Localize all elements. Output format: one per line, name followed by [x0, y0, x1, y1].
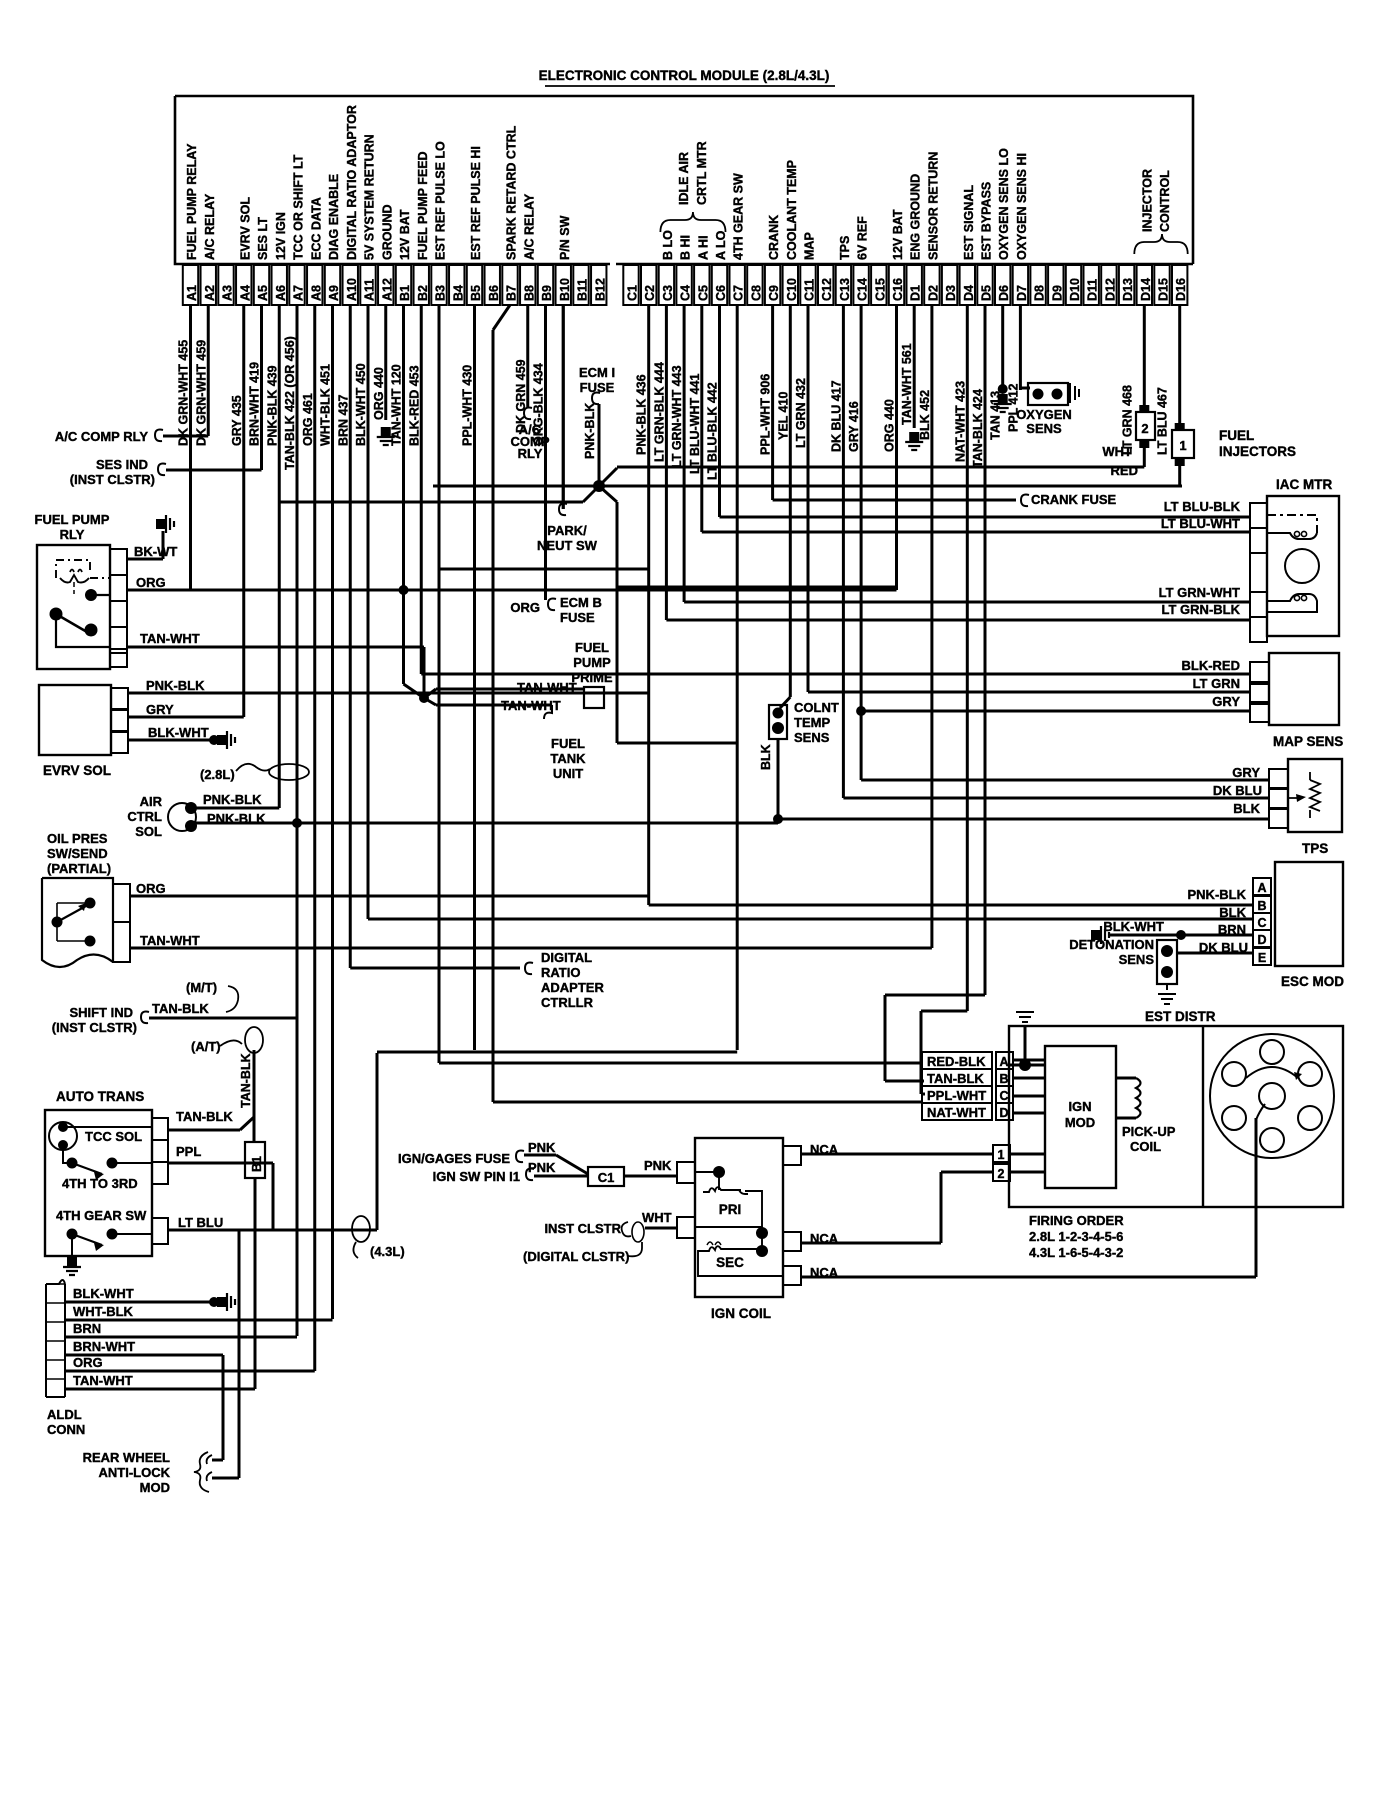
pin C3	[659, 265, 674, 305]
wire from pin A5	[260, 305, 263, 470]
svg-text:MAP SENS: MAP SENS	[1273, 734, 1343, 749]
svg-text:ORG 440: ORG 440	[372, 367, 386, 420]
wire from pin C7	[736, 305, 739, 1050]
svg-text:PNK-BLK: PNK-BLK	[583, 403, 597, 459]
svg-text:OIL PRES: OIL PRES	[47, 831, 108, 846]
DIGITAL RATIO ADAPTER CTRLLR	[350, 967, 520, 970]
svg-text:RED-BLK: RED-BLK	[927, 1054, 986, 1069]
svg-text:A: A	[1257, 881, 1266, 895]
TAN-BLK vertical to B1 conn	[253, 1050, 256, 1142]
svg-text:C11: C11	[803, 279, 817, 301]
svg-text:TEMP: TEMP	[794, 715, 830, 730]
left bus y502	[279, 501, 583, 504]
svg-text:ENG GROUND: ENG GROUND	[909, 174, 923, 260]
wire from pin C4	[683, 305, 686, 602]
svg-text:EST BYPASS: EST BYPASS	[980, 182, 994, 260]
svg-text:BLK-WHT 450: BLK-WHT 450	[354, 363, 368, 446]
svg-text:D: D	[1257, 933, 1266, 947]
svg-text:AIR: AIR	[140, 794, 163, 809]
svg-text:GRY 435: GRY 435	[230, 395, 244, 446]
PARK/NEUT SW	[562, 305, 565, 509]
svg-text:D9: D9	[1050, 285, 1064, 301]
svg-text:A7: A7	[292, 285, 306, 301]
pin C11	[800, 265, 815, 305]
svg-text:TAN-BLK: TAN-BLK	[239, 1053, 253, 1108]
svg-text:12V IGN: 12V IGN	[274, 212, 288, 260]
svg-text:LT GRN-BLK: LT GRN-BLK	[1162, 602, 1241, 617]
svg-text:NAT-WHT 423: NAT-WHT 423	[953, 381, 967, 462]
svg-text:D13: D13	[1121, 278, 1135, 301]
svg-text:GROUND: GROUND	[380, 204, 394, 260]
svg-text:CONN: CONN	[47, 1422, 85, 1437]
pin C1	[623, 265, 638, 305]
WHT bus to injector	[617, 466, 1144, 469]
svg-text:SEC: SEC	[716, 1255, 744, 1270]
svg-text:TAN-WHT: TAN-WHT	[73, 1373, 133, 1388]
pin D3	[942, 265, 957, 305]
ALDL CONN	[46, 1280, 65, 1397]
svg-text:TCC OR SHIFT LT: TCC OR SHIFT LT	[292, 154, 306, 260]
svg-text:TAN-BLK 422 (OR 456): TAN-BLK 422 (OR 456)	[283, 336, 297, 470]
svg-text:A/C RELAY: A/C RELAY	[203, 193, 217, 260]
svg-text:A3: A3	[221, 285, 235, 301]
svg-text:(PARTIAL): (PARTIAL)	[47, 861, 111, 876]
svg-text:GRY: GRY	[1212, 694, 1240, 709]
svg-text:DK GRN-WHT 455: DK GRN-WHT 455	[177, 340, 191, 446]
svg-text:C16: C16	[891, 278, 905, 301]
pin C16	[889, 265, 904, 305]
pin D13	[1119, 265, 1134, 305]
pin B10	[556, 265, 571, 305]
wire from pin C11	[807, 305, 810, 692]
pin C15	[871, 265, 886, 305]
svg-text:E: E	[1258, 951, 1266, 965]
svg-text:C2: C2	[643, 285, 657, 301]
svg-text:PICK-UP: PICK-UP	[1122, 1124, 1176, 1139]
svg-text:C9: C9	[767, 285, 781, 301]
svg-text:IGN/GAGES FUSE: IGN/GAGES FUSE	[398, 1151, 510, 1166]
svg-text:CRANK FUSE: CRANK FUSE	[1031, 492, 1117, 507]
pin B3	[431, 265, 446, 305]
svg-text:B1: B1	[398, 285, 412, 301]
pin C8	[747, 265, 762, 305]
ECM I feed from C16	[617, 586, 897, 589]
svg-text:FUEL: FUEL	[1219, 428, 1254, 443]
svg-text:BLK 452: BLK 452	[918, 390, 932, 440]
wire from pin A8	[313, 305, 316, 1371]
svg-text:ADAPTER: ADAPTER	[541, 980, 604, 995]
IGN COIL	[695, 1138, 783, 1297]
svg-text:(A/T): (A/T)	[191, 1039, 221, 1054]
pin C6	[712, 265, 727, 305]
pin D4	[960, 265, 975, 305]
svg-text:A5: A5	[256, 285, 270, 301]
svg-text:C6: C6	[714, 285, 728, 301]
svg-text:PRI: PRI	[719, 1202, 742, 1217]
svg-text:IGN SW PIN I1: IGN SW PIN I1	[433, 1169, 520, 1184]
svg-text:RED: RED	[1111, 463, 1138, 478]
tcc wire	[63, 1126, 152, 1128]
svg-text:DK BLU 417: DK BLU 417	[829, 380, 843, 452]
pins 1 2	[993, 1145, 1010, 1162]
svg-text:D8: D8	[1033, 285, 1047, 301]
svg-text:EST REF PULSE LO: EST REF PULSE LO	[434, 141, 448, 260]
svg-text:RATIO: RATIO	[541, 965, 580, 980]
svg-text:FUEL PUMP RELAY: FUEL PUMP RELAY	[185, 143, 199, 260]
svg-text:OXYGEN SENS HI: OXYGEN SENS HI	[1015, 153, 1029, 260]
svg-text:ECC DATA: ECC DATA	[309, 197, 323, 260]
aldl blk-wht ground	[209, 1297, 219, 1307]
svg-text:A9: A9	[327, 285, 341, 301]
svg-text:2: 2	[1141, 421, 1148, 436]
svg-text:DK GRN-WHT 459: DK GRN-WHT 459	[194, 340, 208, 446]
BLK bus (air sol to TPS)	[297, 822, 778, 825]
svg-text:2: 2	[998, 1167, 1005, 1181]
svg-text:D5: D5	[980, 285, 994, 301]
svg-text:TANK: TANK	[550, 751, 586, 766]
link y743	[617, 742, 737, 745]
svg-text:PNK-BLK 436: PNK-BLK 436	[635, 374, 649, 455]
svg-text:P/N SW: P/N SW	[558, 215, 572, 260]
svg-text:B6: B6	[487, 285, 501, 301]
svg-text:A LO: A LO	[714, 230, 728, 260]
svg-text:FUEL: FUEL	[575, 640, 609, 655]
svg-text:PNK-BLK: PNK-BLK	[203, 792, 262, 807]
svg-text:C12: C12	[820, 278, 834, 301]
svg-text:COIL: COIL	[1130, 1139, 1161, 1154]
x619 long vertical	[616, 502, 619, 743]
pin C2	[641, 265, 656, 305]
svg-text:PNK: PNK	[528, 1140, 556, 1155]
svg-text:(M/T): (M/T)	[186, 980, 217, 995]
svg-text:BLK-WHT: BLK-WHT	[73, 1286, 134, 1301]
pin B9	[538, 265, 553, 305]
ESC MOD	[1275, 862, 1343, 966]
svg-text:LT BLU-BLK: LT BLU-BLK	[1164, 499, 1241, 514]
est row feeds	[439, 1062, 922, 1065]
svg-text:ELECTRONIC CONTROL MODULE (2.8: ELECTRONIC CONTROL MODULE (2.8L/4.3L)	[539, 68, 830, 83]
svg-text:LT BLU-WHT: LT BLU-WHT	[1161, 516, 1240, 531]
svg-text:C8: C8	[749, 285, 763, 301]
svg-text:BK-WT: BK-WT	[134, 544, 177, 559]
4th to 3rd switch	[67, 1158, 78, 1169]
svg-text:C5: C5	[696, 285, 710, 301]
svg-text:EVRV SOL: EVRV SOL	[43, 763, 111, 778]
wire from pin D1	[913, 305, 916, 428]
wire from pin D6	[1001, 305, 1004, 386]
pin A8	[307, 265, 322, 305]
svg-text:A4: A4	[238, 285, 252, 301]
svg-text:MOD: MOD	[1065, 1115, 1095, 1130]
svg-text:PUMP: PUMP	[573, 655, 611, 670]
pin D14	[1137, 265, 1152, 305]
wire from pin B10	[562, 305, 565, 509]
svg-text:PNK: PNK	[528, 1160, 556, 1175]
svg-text:B: B	[1257, 899, 1266, 913]
svg-text:REAR WHEEL: REAR WHEEL	[83, 1450, 170, 1465]
wire from pin D4	[966, 305, 969, 1011]
svg-text:B4: B4	[451, 285, 465, 301]
svg-text:4TH TO 3RD: 4TH TO 3RD	[62, 1176, 138, 1191]
svg-text:TPS: TPS	[1302, 841, 1328, 856]
svg-text:EST SIGNAL: EST SIGNAL	[962, 185, 976, 260]
svg-text:C1: C1	[626, 285, 640, 301]
svg-text:SPARK RETARD CTRL: SPARK RETARD CTRL	[505, 125, 519, 260]
pin D6	[995, 265, 1010, 305]
pin B11	[573, 265, 588, 305]
wire from pin B3	[438, 305, 441, 1063]
svg-text:BLK-WHT: BLK-WHT	[1103, 919, 1164, 934]
svg-text:EST REF PULSE HI: EST REF PULSE HI	[469, 146, 483, 260]
svg-text:(DIGITAL CLSTR): (DIGITAL CLSTR)	[523, 1249, 629, 1264]
svg-text:PPL-WHT 906: PPL-WHT 906	[759, 374, 773, 455]
svg-text:A6: A6	[274, 285, 288, 301]
pin C4	[676, 265, 691, 305]
svg-text:IDLE AIR: IDLE AIR	[677, 152, 691, 205]
svg-text:DIGITAL: DIGITAL	[541, 950, 592, 965]
svg-text:IAC MTR: IAC MTR	[1276, 477, 1332, 492]
A/C COMP RLY mid	[524, 408, 532, 420]
pin A2	[201, 265, 216, 305]
svg-text:LT BLU 467: LT BLU 467	[1156, 387, 1170, 455]
svg-text:ECM I: ECM I	[579, 365, 615, 380]
svg-text:B LO: B LO	[661, 230, 675, 260]
wire B7 jog	[493, 305, 510, 330]
wire from pin B2	[420, 305, 423, 674]
svg-text:(INST CLSTR): (INST CLSTR)	[70, 472, 155, 487]
svg-text:NEUT SW: NEUT SW	[537, 538, 598, 553]
wire from pin C10	[789, 305, 792, 697]
svg-text:D16: D16	[1174, 278, 1188, 301]
svg-text:D14: D14	[1139, 278, 1153, 301]
svg-text:B HI: B HI	[679, 235, 693, 260]
svg-text:INST CLSTR: INST CLSTR	[544, 1221, 621, 1236]
(4.3L) flag	[352, 1216, 370, 1242]
RED bus to injector	[599, 485, 1182, 488]
svg-text:LT BLU-BLK 442: LT BLU-BLK 442	[706, 382, 720, 480]
svg-text:C10: C10	[785, 278, 799, 301]
svg-text:CRANK: CRANK	[767, 215, 781, 260]
pin A11	[360, 265, 375, 305]
ECM box	[175, 96, 1193, 264]
wire from pin B5	[473, 305, 476, 1050]
svg-text:PNK-BLK 439: PNK-BLK 439	[265, 365, 279, 446]
wire from pin D2	[930, 305, 933, 948]
svg-text:SOL: SOL	[135, 824, 162, 839]
svg-text:DIAG ENABLE: DIAG ENABLE	[327, 174, 341, 260]
pin D5	[977, 265, 992, 305]
svg-text:RLY: RLY	[60, 527, 85, 542]
svg-text:BRN-WHT: BRN-WHT	[73, 1339, 135, 1354]
svg-text:SENS: SENS	[1026, 421, 1062, 436]
svg-text:(INST CLSTR): (INST CLSTR)	[52, 1020, 137, 1035]
relay internals	[56, 560, 110, 578]
svg-text:B2: B2	[416, 285, 430, 301]
svg-text:RLY: RLY	[518, 446, 543, 461]
C1 connector	[588, 1167, 624, 1186]
svg-text:A12: A12	[380, 278, 394, 301]
svg-text:ORG 461: ORG 461	[301, 393, 315, 446]
svg-text:TAN-WHT: TAN-WHT	[140, 933, 200, 948]
svg-text:DIGITAL RATIO ADAPTOR: DIGITAL RATIO ADAPTOR	[345, 105, 359, 260]
wire from pin A7	[296, 305, 299, 1336]
FUEL INJECTORS	[1136, 412, 1155, 440]
svg-text:A HI: A HI	[696, 235, 710, 260]
pin C7	[730, 265, 745, 305]
pin A10	[343, 265, 358, 305]
svg-text:ORG: ORG	[136, 575, 166, 590]
svg-text:D6: D6	[997, 285, 1011, 301]
svg-text:TAN-WHT 120: TAN-WHT 120	[390, 364, 404, 446]
svg-text:MOD: MOD	[140, 1480, 170, 1495]
svg-text:D11: D11	[1086, 279, 1100, 301]
internals	[713, 1166, 725, 1178]
svg-text:SES LT: SES LT	[256, 217, 270, 260]
pin A6	[272, 265, 287, 305]
pin B1	[396, 265, 411, 305]
LT BLU riser to C7	[376, 1053, 379, 1230]
svg-text:CTRLLR: CTRLLR	[541, 995, 594, 1010]
pin A1	[183, 265, 198, 305]
wire from pin C16	[895, 305, 898, 590]
svg-text:TAN-WHT: TAN-WHT	[140, 631, 200, 646]
svg-text:A: A	[999, 1055, 1008, 1069]
svg-text:SW/SEND: SW/SEND	[47, 846, 108, 861]
svg-text:COOLANT TEMP: COOLANT TEMP	[785, 160, 799, 260]
svg-text:TAN-BLK: TAN-BLK	[176, 1109, 233, 1124]
pin C9	[765, 265, 780, 305]
svg-text:GRY: GRY	[1232, 765, 1260, 780]
pin A3	[218, 265, 233, 305]
svg-text:FUEL PUMP FEED: FUEL PUMP FEED	[416, 151, 430, 260]
svg-text:ORG: ORG	[73, 1355, 103, 1370]
svg-text:AUTO TRANS: AUTO TRANS	[56, 1089, 144, 1104]
svg-text:D15: D15	[1157, 278, 1171, 301]
ESC PNK-BLK bus	[649, 904, 1254, 907]
svg-text:C4: C4	[679, 285, 693, 301]
svg-text:FIRING ORDER: FIRING ORDER	[1029, 1213, 1124, 1228]
wire from pin A2	[207, 305, 210, 436]
svg-text:4TH GEAR SW: 4TH GEAR SW	[732, 173, 746, 260]
svg-text:EVRV SOL: EVRV SOL	[238, 197, 252, 260]
TPS	[1288, 759, 1342, 832]
svg-text:C: C	[1257, 916, 1266, 930]
svg-text:COLNT: COLNT	[794, 700, 839, 715]
pin D1	[907, 265, 922, 305]
svg-text:B7: B7	[505, 285, 519, 301]
EVRV SOL	[39, 685, 111, 755]
svg-text:IGN COIL: IGN COIL	[711, 1306, 771, 1321]
svg-text:DK BLU: DK BLU	[1213, 783, 1262, 798]
svg-text:LT BLU: LT BLU	[178, 1215, 223, 1230]
svg-text:5V SYSTEM RETURN: 5V SYSTEM RETURN	[363, 134, 377, 260]
MAP SENS	[1269, 653, 1339, 725]
svg-text:1: 1	[1179, 438, 1186, 453]
svg-text:A/C COMP RLY: A/C COMP RLY	[55, 429, 149, 444]
svg-text:A2: A2	[203, 285, 217, 301]
svg-text:ECM B: ECM B	[560, 595, 602, 610]
svg-text:1: 1	[998, 1148, 1005, 1162]
COLNT TEMP SENS	[780, 697, 790, 708]
svg-text:C13: C13	[838, 278, 852, 301]
svg-text:SENS: SENS	[1119, 952, 1155, 967]
svg-text:A8: A8	[309, 285, 323, 301]
wire from pin A4	[242, 305, 245, 717]
svg-text:D7: D7	[1015, 285, 1029, 301]
pin B5	[467, 265, 482, 305]
pin B12	[591, 265, 606, 305]
pin D9	[1048, 265, 1063, 305]
svg-text:NAT-WHT: NAT-WHT	[927, 1105, 986, 1120]
svg-text:PNK-BLK: PNK-BLK	[146, 678, 205, 693]
svg-text:D: D	[999, 1106, 1008, 1120]
pin A12	[378, 265, 393, 305]
patch esc buses to cells	[1240, 904, 1253, 907]
svg-text:SHIFT IND: SHIFT IND	[69, 1005, 133, 1020]
svg-text:GRY 416: GRY 416	[847, 401, 861, 452]
pin C13	[836, 265, 851, 305]
svg-text:BLK-RED: BLK-RED	[1182, 658, 1241, 673]
svg-text:D1: D1	[909, 285, 923, 301]
svg-text:B10: B10	[558, 278, 572, 301]
svg-text:ESC MOD: ESC MOD	[1281, 974, 1344, 989]
pin A4	[236, 265, 251, 305]
svg-text:BRN 437: BRN 437	[336, 395, 350, 446]
svg-text:ALDL: ALDL	[47, 1407, 82, 1422]
wire from pin C3	[665, 305, 668, 620]
pin C12	[818, 265, 833, 305]
svg-text:SENSOR RETURN: SENSOR RETURN	[926, 152, 940, 260]
svg-text:UNIT: UNIT	[553, 766, 583, 781]
IGN MOD	[1045, 1046, 1116, 1188]
svg-text:LT BLU-WHT 441: LT BLU-WHT 441	[688, 373, 702, 474]
svg-text:BLK: BLK	[759, 744, 773, 770]
svg-text:FUEL PUMP: FUEL PUMP	[35, 512, 110, 527]
wire from pin A11	[367, 305, 370, 919]
svg-text:IGN: IGN	[1068, 1099, 1091, 1114]
svg-text:PPL-WHT: PPL-WHT	[927, 1088, 986, 1103]
svg-text:WHT-BLK: WHT-BLK	[73, 1304, 134, 1319]
svg-text:BLK-RED 453: BLK-RED 453	[407, 365, 421, 446]
svg-text:12V BAT: 12V BAT	[398, 209, 412, 260]
pin B2	[414, 265, 429, 305]
pin D16	[1172, 265, 1187, 305]
wire from pin A9	[331, 305, 334, 1319]
svg-text:A10: A10	[345, 278, 359, 301]
wire B1	[402, 305, 405, 684]
svg-text:TAN-BLK: TAN-BLK	[152, 1001, 209, 1016]
pin D10	[1066, 265, 1081, 305]
PNK-BLK junction	[593, 480, 605, 492]
distributor	[1210, 1034, 1334, 1158]
svg-text:PNK-BLK: PNK-BLK	[1188, 887, 1247, 902]
svg-text:A11: A11	[363, 279, 377, 301]
svg-text:TAN-BLK 424: TAN-BLK 424	[971, 389, 985, 468]
svg-text:BLK: BLK	[1233, 801, 1260, 816]
pin B7	[502, 265, 517, 305]
CRANK FUSE	[773, 499, 1016, 502]
ESC BLK bus	[368, 918, 1254, 921]
svg-text:D10: D10	[1068, 278, 1082, 301]
svg-text:BRN: BRN	[73, 1321, 101, 1336]
svg-text:C: C	[999, 1089, 1008, 1103]
svg-text:D4: D4	[962, 285, 976, 301]
wire from pin C13	[842, 305, 845, 798]
svg-text:LT GRN-WHT 443: LT GRN-WHT 443	[670, 365, 684, 468]
wire from pin D14	[1143, 305, 1146, 412]
anti-lock wires	[222, 1355, 225, 1460]
pin D8	[1030, 265, 1045, 305]
